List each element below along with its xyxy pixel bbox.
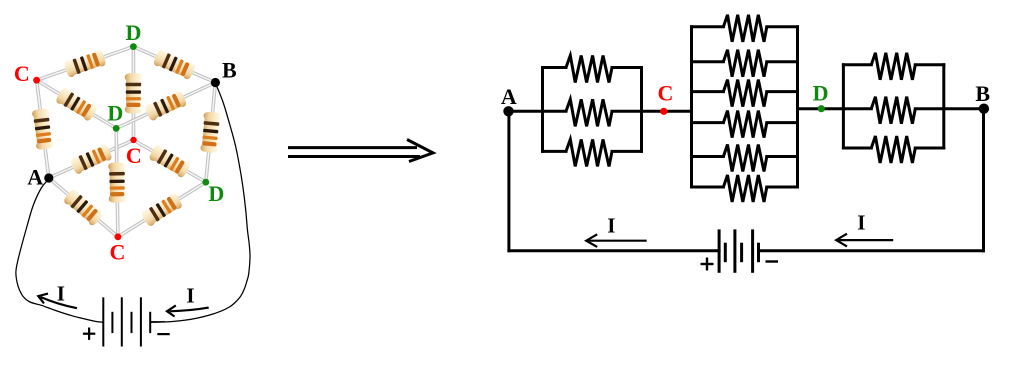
wire branch y=187.0 group C-D <box>692 186 724 189</box>
wire branch y=148.0 group D-B <box>843 147 871 150</box>
svg-text:I: I <box>57 281 65 305</box>
wire cube edge B-Dbr <box>206 83 216 183</box>
wire cube edge Cul-A <box>37 80 49 178</box>
svg-text:I: I <box>186 284 194 308</box>
wire branch y=61.7 group C-D <box>692 60 724 63</box>
resistor R17 (group C-D branch 2) <box>723 50 766 77</box>
resistor R19 (group C-D branch 4) <box>723 111 766 138</box>
resistor R13 (group A-C branch 1) <box>566 56 612 83</box>
resistor R20 (group C-D branch 5) <box>723 145 766 172</box>
label - (battery negative, equivalent circuit) <box>766 260 779 262</box>
node D (lower right) <box>202 179 209 186</box>
wire cube edge Cc-Dbr <box>134 140 206 182</box>
wire branch y=156.5 group C-D <box>692 155 724 158</box>
resistor R6 on cube edge B-Dc <box>144 89 188 122</box>
svg-text:B: B <box>975 81 990 106</box>
battery BT1 (cube circuit), 3 cells <box>103 297 150 346</box>
resistor R7 on cube edge B-Dbr <box>200 111 221 153</box>
wire branch y=91.6 group C-D <box>692 90 724 93</box>
svg-text:A: A <box>27 165 43 190</box>
resistor R2 on cube edge Dtop-B <box>152 49 196 81</box>
svg-text:B: B <box>222 58 237 83</box>
wire left group to node C to middle group <box>642 110 692 113</box>
node A (equivalent circuit) <box>503 106 513 116</box>
node D (equivalent circuit) <box>818 105 825 112</box>
wire cube edge A-Cb <box>49 178 118 237</box>
svg-text:C: C <box>14 61 30 86</box>
svg-text:C: C <box>126 143 142 168</box>
resistor R15 (group A-C branch 3) <box>566 139 612 166</box>
svg-text:D: D <box>208 181 224 206</box>
wire branch y=122.6 group C-D <box>692 121 724 124</box>
wire branch y=111.3 group A-C <box>543 110 567 113</box>
current arrow I (right side of equivalent circuit) <box>836 234 893 247</box>
svg-text:D: D <box>813 80 829 105</box>
svg-text:I: I <box>857 211 865 235</box>
resistor R11 on cube edge A-Cb <box>62 188 104 227</box>
resistor R5 on cube edge Cul-Dc <box>55 86 99 122</box>
svg-text:I: I <box>607 213 615 237</box>
resistor R16 (group C-D branch 1) <box>723 15 766 42</box>
equivalence double arrow <box>288 140 433 162</box>
wire cube edge Cc-A <box>49 140 134 178</box>
right bus bar of group D-B <box>942 65 945 148</box>
wire bottom rail left (A side to battery) <box>509 249 719 252</box>
battery BT2 (equivalent circuit), 3 cells <box>719 229 758 272</box>
left bus bar of group C-D <box>690 27 693 187</box>
left bus bar of group A-C <box>541 68 544 152</box>
wire right group to node B <box>944 107 984 110</box>
wire branch y=67.5 group A-C <box>543 66 567 69</box>
node C (equivalent circuit) <box>660 108 667 115</box>
node A <box>44 173 53 182</box>
resistor R23 (group D-B branch 2) <box>871 97 915 124</box>
resistor R8 on cube edge Cc-A <box>69 143 113 175</box>
wire cube edge Dtop-Cc <box>132 47 136 140</box>
resistor R21 (group C-D branch 6) <box>723 175 766 202</box>
left bus bar of group D-B <box>842 65 845 148</box>
label - (battery negative, cube circuit) <box>157 333 169 335</box>
resistor R10 on cube edge Dc-Cb <box>108 162 126 203</box>
current arrow I (right of cube battery) <box>167 305 209 316</box>
wire cube edge B-Dc <box>116 83 215 129</box>
node C (bottom) <box>115 233 122 240</box>
resistor R14 (group A-C branch 2) <box>566 99 612 126</box>
svg-text:C: C <box>657 81 673 106</box>
svg-text:C: C <box>110 240 126 265</box>
resistor R3 on cube edge Dtop-Cc <box>125 73 142 114</box>
current arrow I (left side of equivalent circuit) <box>586 234 647 247</box>
node D (center) <box>113 125 120 132</box>
wire node A to left parallel group <box>509 110 543 113</box>
wire cube edge Dtop-Cul <box>37 47 134 81</box>
wire bottom rail right (battery to B side) <box>759 249 984 252</box>
resistor R22 (group D-B branch 1) <box>871 53 915 80</box>
resistor R1 on cube edge Dtop-Cul <box>63 49 107 78</box>
resistor R18 (group C-D branch 3) <box>723 80 766 107</box>
current arrow I (left of cube battery) <box>38 294 77 309</box>
label + (battery positive, cube circuit) <box>83 328 95 340</box>
resistor R12 on cube edge Dbr-Cb <box>140 192 184 228</box>
wire branch y=64.8 group D-B <box>843 63 871 66</box>
wire branch y=108.7 group D-B <box>843 107 871 110</box>
wire branch y=26.8 group C-D <box>692 25 724 28</box>
wire cube edge Dbr-Cb <box>118 182 206 237</box>
svg-text:A: A <box>501 84 517 109</box>
wire cube edge Cul-Dc <box>37 80 117 128</box>
svg-text:D: D <box>126 20 142 45</box>
wire cube edge Dtop-B <box>133 47 215 83</box>
resistor R4 on cube edge Cul-A <box>32 108 54 150</box>
right bus bar of group C-D <box>796 27 799 187</box>
resistor R24 (group D-B branch 3) <box>871 136 915 163</box>
wire from node A to battery positive terminal <box>16 179 103 322</box>
node D (top) <box>130 43 137 50</box>
node C (center) <box>130 137 136 143</box>
label + (battery positive, equivalent circuit) <box>701 258 714 271</box>
wire cube edge Dc-Cb <box>116 128 118 236</box>
svg-text:D: D <box>107 101 123 126</box>
resistor R9 on cube edge Cc-Dbr <box>148 143 192 178</box>
wire battery negative stub <box>150 321 165 323</box>
node C (upper left) <box>33 77 40 84</box>
wire node A down to bottom rail <box>507 111 510 251</box>
wire middle group to node D to right group <box>798 107 844 110</box>
node B <box>211 78 220 87</box>
wire branch y=151.4 group A-C <box>543 150 567 153</box>
wire from node B to battery negative terminal <box>150 85 250 323</box>
right bus bar of group A-C <box>640 68 643 152</box>
node B (equivalent circuit) <box>979 104 989 114</box>
wire node B down to bottom rail <box>982 109 985 251</box>
